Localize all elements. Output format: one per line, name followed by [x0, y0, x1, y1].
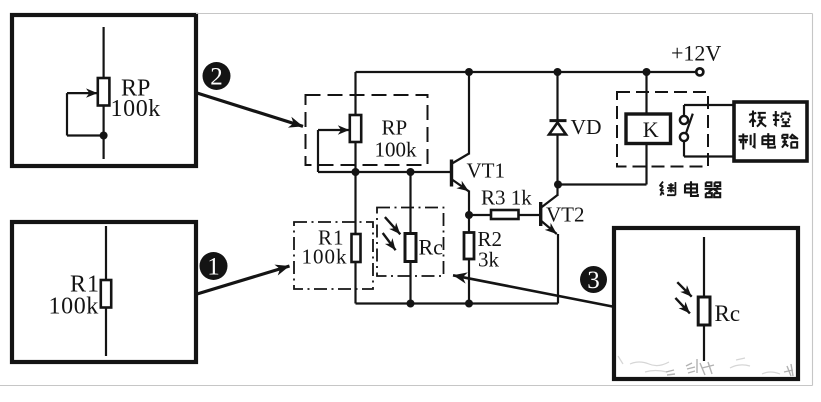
- potentiometer RP (main circuit): [318, 115, 361, 172]
- wire (box1 vertical lead): [102, 27, 104, 159]
- potentiometer RP (box1 symbol): [67, 78, 109, 136]
- resistor R1 (main circuit): [352, 234, 361, 262]
- svg-text:VT2: VT2: [546, 203, 585, 227]
- wire (bottom rail): [356, 302, 559, 304]
- wire (box3 vertical lead): [703, 237, 705, 361]
- svg-text:100k: 100k: [111, 96, 161, 122]
- light arrow (box3 lower): [675, 298, 690, 314]
- wire (box2 vertical lead): [105, 226, 107, 356]
- relay coil K: [626, 72, 671, 185]
- dashed enclosure (RP in main circuit): [306, 95, 428, 165]
- wire (+12V top rail): [356, 71, 696, 73]
- svg-text:K: K: [643, 117, 659, 142]
- svg-text:VT1: VT1: [467, 159, 506, 183]
- svg-text:Rc: Rc: [715, 301, 741, 326]
- annotation arrow 1 (to R1 enclosure): [197, 266, 290, 294]
- wire (left vertical branch: RP / R1): [354, 72, 356, 304]
- faint frame right line: [812, 14, 814, 386]
- label 制电路 (drawn glyphs): [739, 133, 798, 149]
- annotation circle 2: [203, 62, 231, 90]
- light arrow (box3 upper): [677, 282, 691, 297]
- relay contact switch: [680, 105, 693, 157]
- node (VD anode / VT2 collector / coil return): [554, 181, 562, 189]
- chain-line enclosure (R1 in main circuit): [294, 222, 373, 289]
- annotation circle 1: [200, 252, 228, 280]
- annotation arrow 2 (to RP enclosure): [197, 93, 303, 126]
- svg-text:1: 1: [207, 254, 220, 281]
- inset box 2 (bottom-left detail of R1): [12, 222, 196, 362]
- wire (switch to load box, bottom): [684, 155, 733, 157]
- controlled circuit box (被控制电路): [734, 102, 807, 161]
- inset box 1 (top-left detail of RP): [12, 15, 196, 166]
- node (top rail / relay coil): [643, 68, 651, 76]
- node (top rail / VD): [554, 68, 562, 76]
- transistor VT2: [541, 185, 558, 304]
- annotation arrow 3 (to Rc enclosure): [453, 275, 615, 307]
- terminal +12V (open circle): [696, 68, 703, 75]
- faint frame top line: [196, 13, 813, 15]
- node (VT1 emitter / R2 / R3): [465, 211, 473, 219]
- annotation circle 3: [580, 266, 607, 293]
- svg-text:+12V: +12V: [671, 41, 721, 66]
- svg-text:R3 1k: R3 1k: [481, 186, 532, 210]
- wire (Rc branch vertical): [409, 172, 411, 304]
- resistor R3: [469, 210, 540, 219]
- photoresistor Rc (main circuit): [405, 234, 416, 262]
- light arrow (main Rc lower): [383, 233, 396, 250]
- inset box 3 (bottom-right detail of Rc): [614, 228, 798, 379]
- svg-text:100k: 100k: [49, 294, 99, 320]
- transistor VT1: [452, 72, 470, 215]
- node (bottom rail / R2): [465, 300, 473, 308]
- svg-text:2: 2: [210, 64, 223, 91]
- light arrow (main Rc upper): [385, 217, 400, 234]
- svg-text:100k: 100k: [302, 245, 348, 269]
- svg-text:3: 3: [587, 267, 600, 294]
- dashed enclosure (relay): [617, 92, 708, 167]
- chain-line enclosure (Rc in main circuit): [377, 208, 444, 277]
- node (base bus / RP-R1 branch): [352, 168, 360, 176]
- node (bottom rail / Rc): [407, 300, 415, 308]
- watermark (faint squiggles): [618, 356, 780, 374]
- label 被控 (drawn glyphs): [749, 111, 791, 127]
- wire (base bus horizontal): [318, 171, 451, 173]
- faint frame bottom line: [0, 385, 813, 387]
- resistor R1 (box2 symbol): [101, 280, 111, 308]
- diode VD: [549, 72, 567, 185]
- label 继电器 (drawn glyphs): [660, 181, 722, 197]
- node (box1 wiper junction): [100, 132, 108, 140]
- wire (switch to load box, top): [684, 104, 733, 106]
- photoresistor Rc (box3 symbol): [698, 297, 710, 325]
- svg-text:100k: 100k: [375, 138, 418, 162]
- svg-text:RP: RP: [382, 116, 408, 140]
- svg-text:VD: VD: [571, 115, 602, 139]
- svg-text:3k: 3k: [478, 248, 500, 272]
- wire (coil return): [558, 183, 647, 185]
- svg-text:Rc: Rc: [419, 235, 444, 260]
- node (base bus / Rc branch): [407, 168, 415, 176]
- resistor R2: [464, 215, 474, 304]
- node (top rail / VT1 collector): [465, 68, 473, 76]
